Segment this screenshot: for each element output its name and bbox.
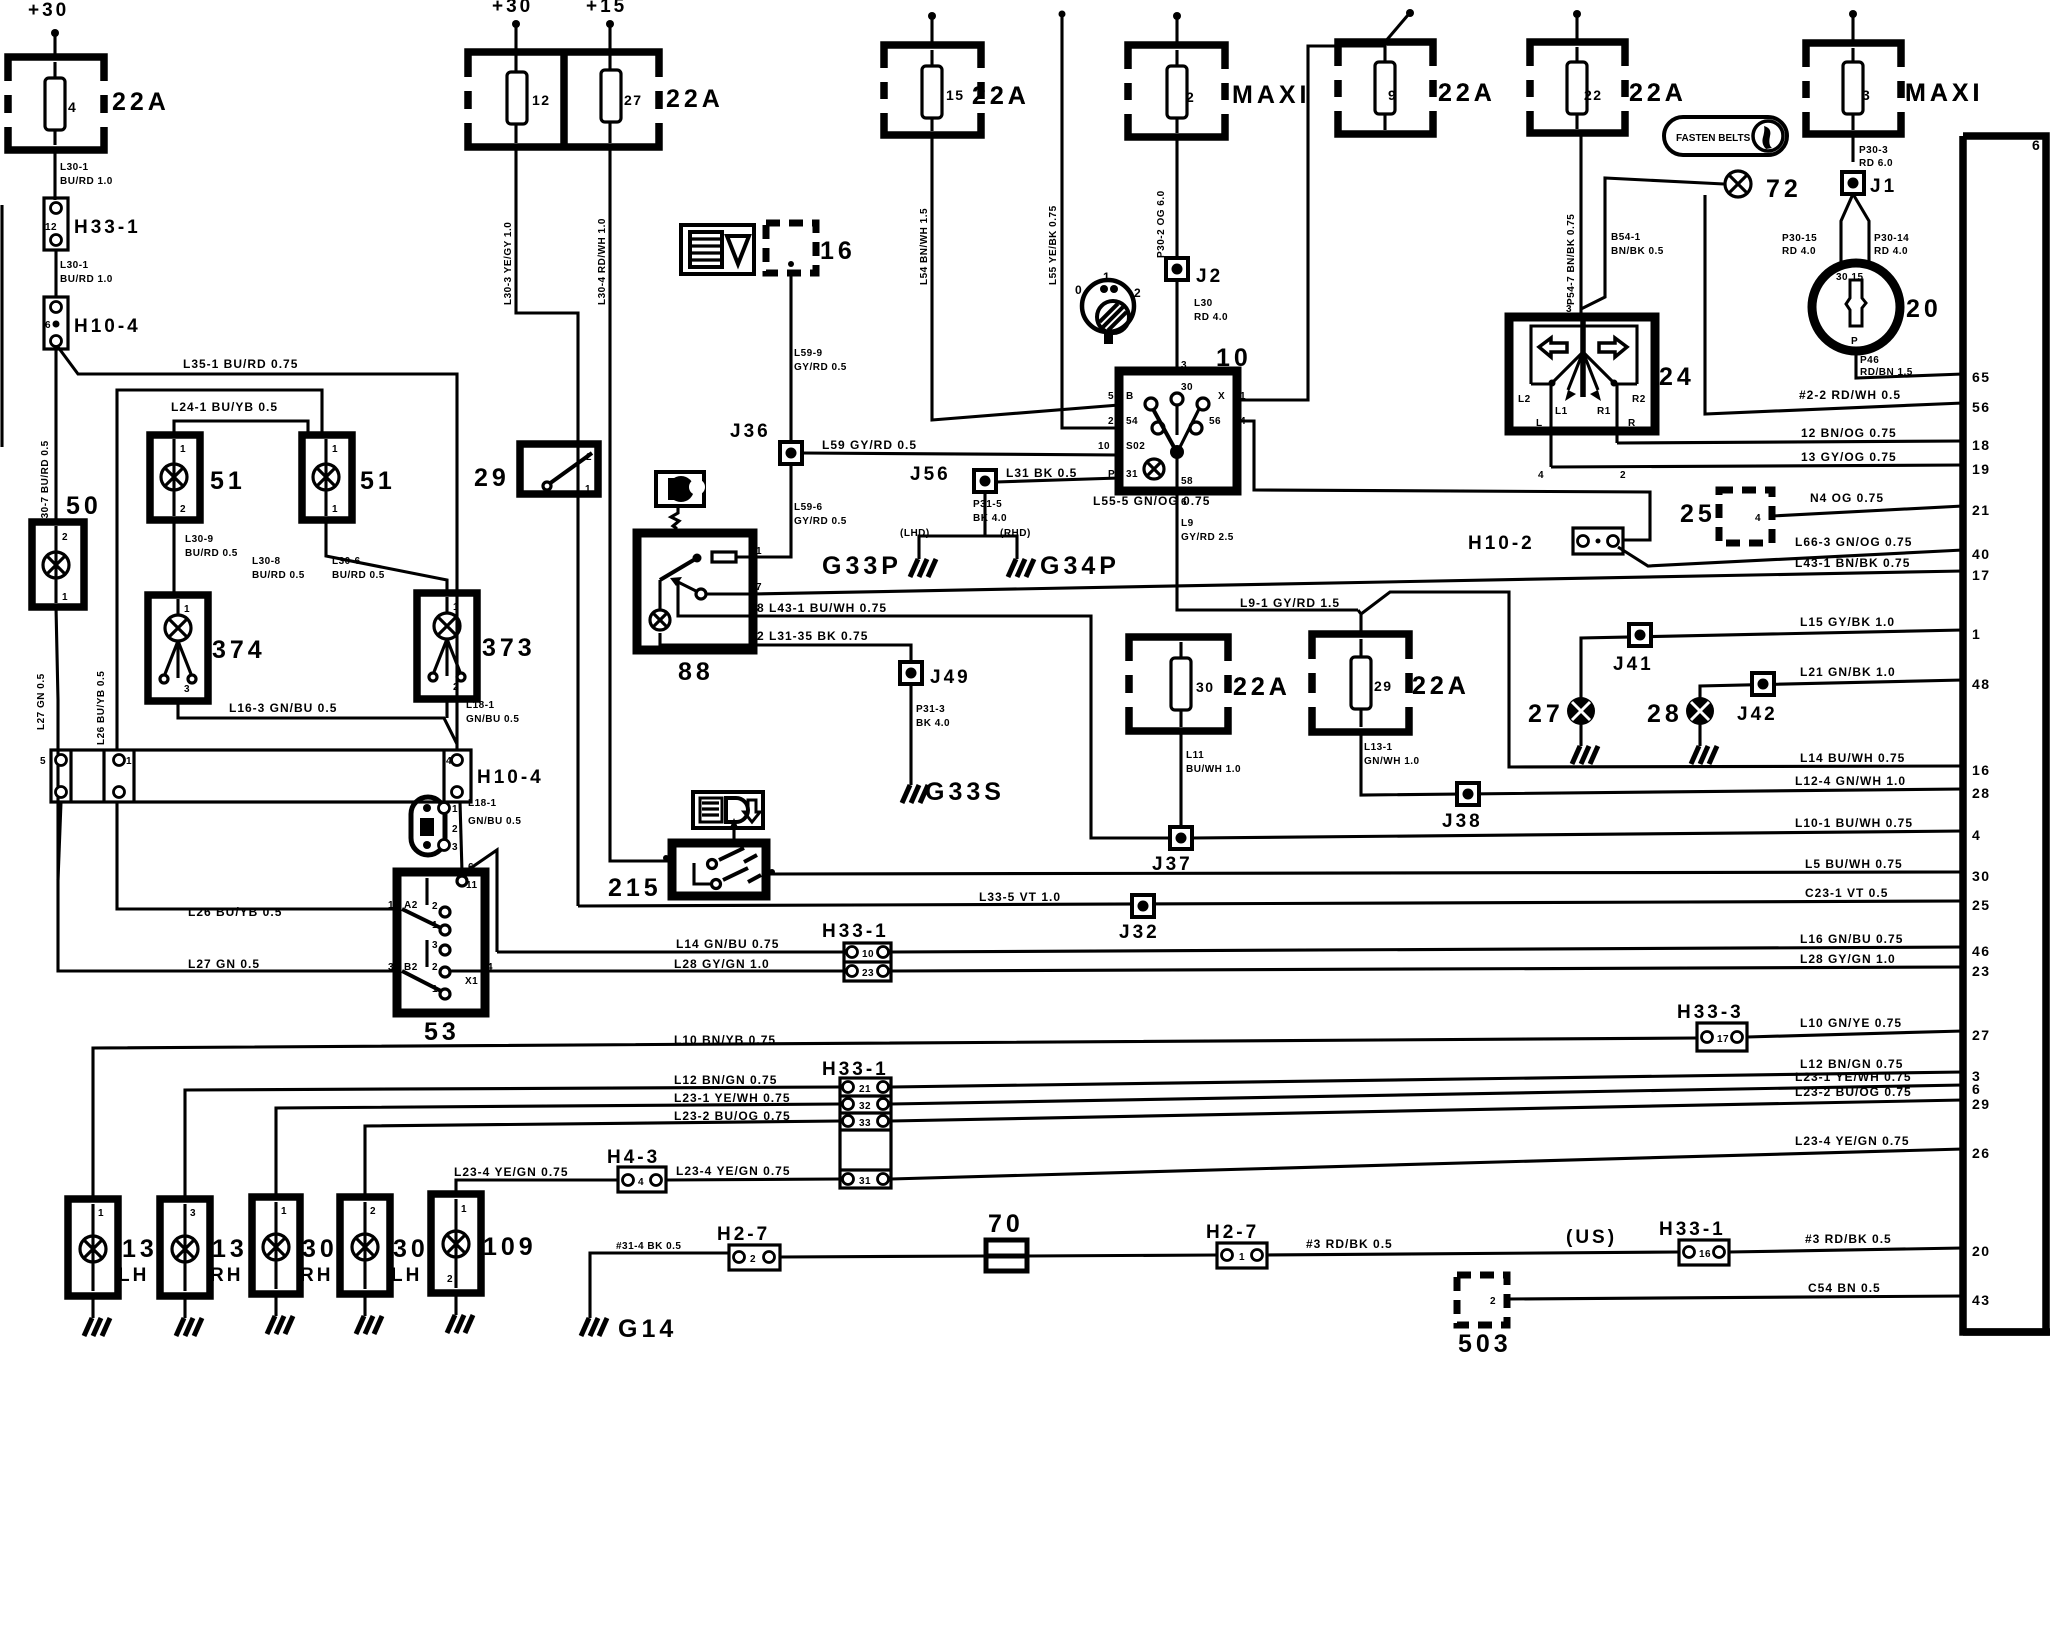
svg-text:P54-7 BN/BK 0.75: P54-7 BN/BK 0.75 <box>1566 214 1577 305</box>
svg-text:L9-1 GY/RD 1.5: L9-1 GY/RD 1.5 <box>1240 596 1340 610</box>
svg-text:H33-1: H33-1 <box>1659 1219 1726 1240</box>
supply dot and wire into fuse 4 <box>51 29 59 37</box>
wire L59-6 GY/RD 0.5 from J36 down to relay 88 pin 1 <box>753 464 791 557</box>
bus connector strip (right side) <box>1963 136 2046 1332</box>
svg-text:R1: R1 <box>1597 406 1611 417</box>
fuse 15 (22A) box <box>884 45 981 135</box>
svg-text:GY/RD 0.5: GY/RD 0.5 <box>794 362 847 373</box>
wire 70 to H2-7 (pin 1) <box>1027 1255 1217 1256</box>
svg-text:21: 21 <box>1972 502 1991 518</box>
connector H10-4 (left, pin 6) <box>44 297 68 349</box>
svg-text:29: 29 <box>1972 1096 1991 1112</box>
svg-text:56: 56 <box>1972 399 1991 415</box>
connector H2-7 (pin 2) <box>729 1245 780 1270</box>
fuse box border notches (fuse 30 and 29) <box>1124 661 1135 675</box>
svg-text:11: 11 <box>466 880 478 891</box>
svg-text:H4-3: H4-3 <box>607 1147 660 1168</box>
switch 24 inner frame <box>1531 326 1637 384</box>
dual fuse box: fuse 12 and fuse 27 (22A) <box>468 52 659 147</box>
svg-text:J36: J36 <box>730 421 771 442</box>
svg-text:15: 15 <box>946 87 965 103</box>
wire L30-8 / L30-6 BU/RD 0.5 from lamp 51 RH down diagonal to lamp 373 <box>326 520 447 593</box>
svg-text:109: 109 <box>483 1233 537 1261</box>
connector J37 <box>1170 827 1192 849</box>
svg-text:L11: L11 <box>1186 750 1204 761</box>
svg-text:1: 1 <box>585 484 591 495</box>
svg-text:BU/RD 1.0: BU/RD 1.0 <box>60 176 113 187</box>
wire H33-1 to H10-4, label L30-1 BU/RD 1.0 <box>54 250 57 298</box>
svg-text:1: 1 <box>332 504 338 515</box>
svg-text:1: 1 <box>180 444 186 455</box>
svg-text:30: 30 <box>302 1235 338 1263</box>
svg-text:A2: A2 <box>404 900 418 911</box>
svg-text:27: 27 <box>624 92 643 108</box>
svg-text:30: 30 <box>1196 679 1215 695</box>
svg-text:1: 1 <box>453 602 459 613</box>
svg-text:MAXI: MAXI <box>1905 79 1984 107</box>
svg-text:BU/WH 1.0: BU/WH 1.0 <box>1186 764 1241 775</box>
lamp 51 RH box <box>302 435 352 520</box>
svg-text:6: 6 <box>45 320 51 331</box>
svg-text:L28 GY/GN 1.0: L28 GY/GN 1.0 <box>1800 952 1896 966</box>
svg-text:22A: 22A <box>666 85 724 113</box>
svg-text:#31-4 BK 0.5: #31-4 BK 0.5 <box>616 1241 681 1252</box>
svg-text:L55 YE/BK 0.75: L55 YE/BK 0.75 <box>1048 205 1059 285</box>
svg-text:4: 4 <box>1755 513 1761 524</box>
svg-text:29: 29 <box>1374 678 1393 694</box>
fuse 22 (22A) box <box>1530 42 1625 133</box>
svg-text:H33-1: H33-1 <box>822 1059 889 1080</box>
svg-text:L55-5 GN/OG 0.75: L55-5 GN/OG 0.75 <box>1093 494 1210 508</box>
svg-text:L59 GY/RD 0.5: L59 GY/RD 0.5 <box>822 438 917 452</box>
svg-text:S02: S02 <box>1126 441 1145 452</box>
svg-text:J49: J49 <box>930 667 971 688</box>
svg-text:50: 50 <box>66 492 102 520</box>
svg-text:3: 3 <box>452 842 458 853</box>
wire L30 RD 4.0 from J2 down to switch 10 pin 30 <box>1175 280 1178 374</box>
svg-text:10: 10 <box>862 949 874 960</box>
icon box (headlamp) above relay 88 <box>656 472 704 506</box>
wire fuse4 to H33-1, label L30-1 BU/RD 1.0 <box>53 150 56 200</box>
svg-text:P: P <box>1108 469 1115 480</box>
svg-text:R2: R2 <box>1632 394 1646 405</box>
wire from long block pin1 down to switch 53 pin A2 wire (L26 BU/YB 0.5) <box>117 802 397 909</box>
dashed box 16 <box>766 223 816 273</box>
svg-text:1: 1 <box>1239 1252 1245 1263</box>
svg-text:2: 2 <box>1108 416 1114 427</box>
switch 53 lever contacts <box>402 909 441 928</box>
svg-text:(US): (US) <box>1566 1227 1617 1248</box>
svg-text:P30-14: P30-14 <box>1874 233 1909 244</box>
wire 8 L43-1 BU/WH 0.75 from relay 88 pin 8 to J37 <box>753 616 1172 838</box>
svg-text:RH: RH <box>300 1265 333 1286</box>
switch 10 box <box>1119 371 1237 491</box>
svg-text:GY/RD 0.5: GY/RD 0.5 <box>794 516 847 527</box>
svg-text:BU/RD 0.5: BU/RD 0.5 <box>252 570 305 581</box>
svg-text:1: 1 <box>452 804 458 815</box>
svg-text:L23-2 BU/OG 0.75: L23-2 BU/OG 0.75 <box>674 1109 791 1123</box>
svg-text:BU/RD 1.0: BU/RD 1.0 <box>60 274 113 285</box>
svg-text:9: 9 <box>1388 87 1397 103</box>
wire row L16 GN/BU 0.75 from H33-1 to bus pin 46 <box>891 947 1963 952</box>
supply dot above fuse 22 <box>1573 10 1581 18</box>
switch 29 (on L30-3 wire) <box>520 444 598 494</box>
svg-text:L14 BU/WH 0.75: L14 BU/WH 0.75 <box>1800 751 1905 765</box>
svg-text:3: 3 <box>1862 87 1871 103</box>
svg-text:L16-3 GN/BU 0.5: L16-3 GN/BU 0.5 <box>229 701 337 715</box>
svg-text:L30: L30 <box>1194 298 1213 309</box>
wire L31 BK 0.5 from J56 right to switch 10 pin 31 <box>996 478 1119 482</box>
svg-text:31: 31 <box>1126 469 1138 480</box>
dashed box 503 with wire C54 BN 0.5 to bus pin 43 <box>1457 1275 1507 1325</box>
svg-text:P31-5: P31-5 <box>973 499 1002 510</box>
ignition switch 20 <box>1812 263 1900 351</box>
svg-text:2: 2 <box>1490 1296 1496 1307</box>
svg-text:13: 13 <box>122 1235 158 1263</box>
svg-text:22A: 22A <box>1233 673 1291 701</box>
svg-text:4: 4 <box>446 756 452 767</box>
svg-text:GN/WH 1.0: GN/WH 1.0 <box>1364 756 1420 767</box>
svg-text:GY/RD 2.5: GY/RD 2.5 <box>1181 532 1234 543</box>
svg-text:1: 1 <box>1240 391 1246 402</box>
svg-text:L30-3 YE/GY 1.0: L30-3 YE/GY 1.0 <box>503 222 514 305</box>
connector J2 <box>1166 258 1188 280</box>
wire L59 GY/RD 0.5 from J36 right to switch 10 pin S02 <box>802 453 1119 455</box>
svg-text:H33-3: H33-3 <box>1677 1002 1744 1023</box>
svg-text:RH: RH <box>210 1265 243 1286</box>
connector J1 <box>1842 172 1864 194</box>
wire from long block left pin down (joins L27 run) <box>58 802 61 880</box>
wire row L28 GY/GN 1.0 from switch 53 pin 4 to H33-1 pin 23 <box>450 969 846 972</box>
svg-text:2: 2 <box>432 901 438 912</box>
svg-text:L23-4 YE/GN 0.75: L23-4 YE/GN 0.75 <box>454 1165 569 1179</box>
svg-text:10: 10 <box>1098 441 1110 452</box>
wire row L12 BN/GN 0.75 from lamp 13RH up through H33-1 pin 21 to bus pin 3 <box>185 1087 840 1197</box>
svg-text:32: 32 <box>859 1101 871 1112</box>
svg-text:H10-4: H10-4 <box>74 316 141 337</box>
svg-text:L18-1: L18-1 <box>468 798 497 809</box>
connector J41 <box>1629 624 1651 646</box>
svg-text:2: 2 <box>370 1206 376 1217</box>
svg-text:2: 2 <box>453 682 459 693</box>
svg-text:2: 2 <box>1620 470 1626 481</box>
wire L33-5 VT 1.0 row from x578 corner through J32 to bus pin 25 <box>578 901 1963 906</box>
svg-text:+30: +30 <box>28 0 69 21</box>
svg-text:70: 70 <box>988 1210 1024 1238</box>
svg-text:72: 72 <box>1766 175 1802 203</box>
svg-text:GN/BU 0.5: GN/BU 0.5 <box>468 816 521 827</box>
svg-text:20: 20 <box>1972 1243 1991 1259</box>
svg-text:L30-1: L30-1 <box>60 162 89 173</box>
svg-text:40: 40 <box>1972 546 1991 562</box>
icon box (interior light) with hatch and V symbol <box>681 225 754 274</box>
svg-text:H2-7: H2-7 <box>717 1224 770 1245</box>
svg-text:2 L31-35 BK 0.75: 2 L31-35 BK 0.75 <box>757 629 868 643</box>
svg-text:B54-1: B54-1 <box>1611 232 1641 243</box>
svg-text:2: 2 <box>586 452 592 463</box>
svg-text:22A: 22A <box>972 82 1030 110</box>
svg-text:L30-8: L30-8 <box>252 556 281 567</box>
wire H2-7 to box 70 <box>780 1256 986 1257</box>
svg-text:8 L43-1 BU/WH 0.75: 8 L43-1 BU/WH 0.75 <box>757 601 887 615</box>
wire L18-1 GN/BU 0.5 from long block pin 4 down to switch 53 pin 6 <box>460 802 462 872</box>
wire P30-3 RD 6.0 from fuse 3 down to J1 <box>1851 134 1854 162</box>
svg-text:19: 19 <box>1972 461 1991 477</box>
svg-text:RD 4.0: RD 4.0 <box>1874 246 1908 257</box>
switch 215 interior contacts <box>694 863 712 884</box>
svg-text:L10 GN/YE 0.75: L10 GN/YE 0.75 <box>1800 1016 1902 1030</box>
switch 24 box (turn signal) <box>1509 317 1655 431</box>
svg-text:3: 3 <box>388 962 394 973</box>
svg-text:51: 51 <box>360 467 396 495</box>
switch 10 interior contacts and rotor <box>1145 398 1157 410</box>
svg-text:L18-1: L18-1 <box>466 700 495 711</box>
wire 2 L31-35 BK 0.75 from relay 88 pin 2 to J49 and ground G33S <box>753 645 911 779</box>
svg-text:2: 2 <box>180 504 186 515</box>
svg-text:3: 3 <box>190 1208 196 1219</box>
svg-text:G33S: G33S <box>925 778 1005 806</box>
svg-text:1: 1 <box>332 444 338 455</box>
svg-text:X1: X1 <box>465 976 478 987</box>
svg-text:22: 22 <box>1584 87 1603 103</box>
svg-text:2: 2 <box>750 1254 756 1265</box>
svg-text:L35-1 BU/RD 0.75: L35-1 BU/RD 0.75 <box>183 357 298 371</box>
fuse 3 (MAXI) box <box>1806 43 1901 134</box>
lamp box 13 RH <box>160 1199 210 1296</box>
svg-text:46: 46 <box>1972 943 1991 959</box>
svg-text:#2-2 RD/WH 0.5: #2-2 RD/WH 0.5 <box>1799 388 1901 402</box>
switch 24 pin verticals <box>1549 384 1552 467</box>
svg-text:H10-4: H10-4 <box>477 767 544 788</box>
svg-text:FASTEN BELTS: FASTEN BELTS <box>1676 133 1751 144</box>
svg-text:L28 GY/GN 1.0: L28 GY/GN 1.0 <box>674 957 770 971</box>
svg-text:1: 1 <box>388 900 394 911</box>
svg-text:12 BN/OG 0.75: 12 BN/OG 0.75 <box>1801 426 1897 440</box>
svg-text:54: 54 <box>1126 416 1138 427</box>
wire lamp 50 down to corner y971 (L27 GN 0.5 rotated) then right to switch 53 pin B2 <box>56 607 397 971</box>
connector H2-7 right (pin 1) <box>1217 1243 1267 1268</box>
svg-text:N4 OG 0.75: N4 OG 0.75 <box>1810 491 1884 505</box>
wire L30-3 YE/GY 1.0 from fuse 12 down (rotated label) then jog to x578 down to y906 <box>516 147 578 906</box>
svg-text:27: 27 <box>1972 1027 1991 1043</box>
switch 24 interior: arrows and contact fan <box>1539 338 1567 357</box>
svg-text:J41: J41 <box>1613 654 1654 675</box>
svg-text:53: 53 <box>424 1018 460 1046</box>
wire split P30-15 / P30-14 RD 4.0 from J1 down to ignition switch 20 <box>1841 194 1853 262</box>
wire to bus pin 20 <box>1729 1248 1963 1252</box>
svg-text:BK 4.0: BK 4.0 <box>916 718 950 729</box>
connector H10-2 <box>1573 528 1623 554</box>
lamp box 13 LH <box>68 1199 118 1296</box>
svg-text:L23-4 YE/GN 0.75: L23-4 YE/GN 0.75 <box>676 1164 791 1178</box>
wire L5 BU/WH 0.75 from switch 215 pin 6 to bus pin 30 <box>766 872 1963 874</box>
svg-text:4: 4 <box>638 1177 644 1188</box>
lamp 373 box with fork symbol <box>417 593 477 699</box>
svg-text:L13-1: L13-1 <box>1364 742 1393 753</box>
connector J36 <box>780 442 802 464</box>
lamp 51 LH box <box>150 435 200 520</box>
fuse 9 (22A) box <box>1338 42 1433 134</box>
relay 88 box <box>637 533 753 650</box>
connector H33-1 block (pins 21 / 32 / 33 / 31) <box>840 1078 891 1188</box>
svg-text:6: 6 <box>1972 1081 1981 1097</box>
svg-text:1: 1 <box>1972 626 1981 642</box>
svg-text:4: 4 <box>1972 827 1981 843</box>
connector H33-1 block (pins 10 / 23) <box>844 943 891 981</box>
svg-text:L66-3 GN/OG 0.75: L66-3 GN/OG 0.75 <box>1795 535 1912 549</box>
svg-text:18: 18 <box>1972 437 1991 453</box>
svg-text:G34P: G34P <box>1040 552 1120 580</box>
switch 53 interior contacts column <box>425 878 428 905</box>
svg-text:30: 30 <box>393 1235 429 1263</box>
svg-text:0: 0 <box>1075 283 1082 297</box>
svg-text:L33-5 VT 1.0: L33-5 VT 1.0 <box>979 890 1061 904</box>
ground G33P <box>910 553 936 577</box>
svg-text:L43-1 BN/BK 0.75: L43-1 BN/BK 0.75 <box>1795 556 1910 570</box>
wire L54 BN/WH 1.5 from fuse 15 down then right into switch 10 pin B <box>932 135 1119 420</box>
svg-text:1: 1 <box>461 1204 467 1215</box>
svg-text:L10 BN/YB 0.75: L10 BN/YB 0.75 <box>674 1033 776 1047</box>
wire #2-2 RD/WH 0.5 from lamp 72 down and right to bus pin 56 <box>1705 195 1963 414</box>
svg-text:+15: +15 <box>586 0 627 17</box>
connector oval ID (diagnostic, pins 1 2 3) <box>411 797 458 855</box>
switch 53 interior: top pin 6 <box>457 876 467 886</box>
svg-text:1: 1 <box>98 1208 104 1219</box>
svg-text:R: R <box>1628 418 1636 429</box>
svg-text:31: 31 <box>859 1176 871 1187</box>
switch 215 pins <box>663 855 669 861</box>
svg-text:H33-1: H33-1 <box>74 217 141 238</box>
svg-text:21: 21 <box>859 1084 871 1095</box>
svg-text:J38: J38 <box>1442 811 1483 832</box>
svg-text:J2: J2 <box>1196 266 1223 287</box>
wire branch into fuse 29 and continuation to row L14 BU/WH to bus pin 16 <box>1358 610 1361 634</box>
svg-text:L54 BN/WH 1.5: L54 BN/WH 1.5 <box>919 208 930 285</box>
wire 13 GY/OG 0.75 from switch 24 pin 4 to bus pin 19 <box>1551 465 1963 467</box>
svg-text:L2: L2 <box>1518 394 1531 405</box>
connector H33-3 (pin 17) <box>1697 1023 1747 1051</box>
svg-text:B: B <box>1126 391 1134 402</box>
ground G34P <box>1008 553 1034 577</box>
svg-text:X: X <box>1218 391 1225 402</box>
svg-text:88: 88 <box>678 658 714 686</box>
wire L30-9 BU/RD 0.5 from lamp 51 LH down to lamp 374 <box>172 520 175 595</box>
lamp box 30 LH <box>340 1197 390 1294</box>
svg-text:L59-9: L59-9 <box>794 348 823 359</box>
svg-text:C23-1 VT 0.5: C23-1 VT 0.5 <box>1805 886 1888 900</box>
svg-text:P31-3: P31-3 <box>916 704 945 715</box>
svg-text:12: 12 <box>45 222 57 233</box>
wire row L15 GY/BK 1.0 from lamp 27 through J41 to bus pin 1 <box>1581 630 1963 698</box>
wire row L43-1 BN/BK 0.75 from relay 88 pin 7 to bus pin 17 <box>753 571 1963 594</box>
svg-text:J42: J42 <box>1737 704 1778 725</box>
svg-text:L21 GN/BK 1.0: L21 GN/BK 1.0 <box>1800 665 1896 679</box>
svg-text:1: 1 <box>281 1206 287 1217</box>
lamp box 30 RH <box>252 1197 300 1294</box>
fuse 30 (22A) box <box>1129 637 1228 731</box>
lamp 50 box <box>32 522 84 607</box>
svg-text:L30-1: L30-1 <box>60 260 89 271</box>
svg-text:1: 1 <box>756 546 762 557</box>
svg-text:BU/RD 0.5: BU/RD 0.5 <box>332 570 385 581</box>
fuse 2 (MAXI) box <box>1128 45 1225 137</box>
icon box (headlamp dip) above switch 215 <box>693 792 763 828</box>
switch 215 box <box>672 843 766 896</box>
connector H33-1 (pin 12) <box>44 198 68 250</box>
supply dot above fuse 9 with corner feed to X1 rail <box>1406 9 1414 17</box>
connector J32 <box>1132 895 1154 917</box>
svg-text:2: 2 <box>452 824 458 835</box>
wire P30-2 OG 6.0 from fuse 2 down to J2 (rotated label) <box>1175 137 1178 258</box>
svg-text:23: 23 <box>1972 963 1991 979</box>
svg-text:25: 25 <box>1972 897 1991 913</box>
supply dot above fuse 2 <box>1173 12 1181 20</box>
wire 12 BN/OG 0.75 from switch 24 pin 2 to bus pin 18 <box>1617 441 1963 443</box>
svg-text:L23-1 YE/WH 0.75: L23-1 YE/WH 0.75 <box>674 1091 791 1105</box>
svg-text:BK 4.0: BK 4.0 <box>973 513 1007 524</box>
svg-text:3: 3 <box>432 940 438 951</box>
wire from switch 53 top pin diagonal to vertical x497 down to row L16 GN/BU <box>465 850 497 952</box>
svg-text:L10-1 BU/WH 0.75: L10-1 BU/WH 0.75 <box>1795 816 1913 830</box>
fuse 4 (22A) box <box>8 57 104 150</box>
wire L30-4 RD/WH 1.0 from fuse 27 down to switch 215 (rotated label) <box>610 147 672 861</box>
svg-text:2: 2 <box>1134 286 1141 300</box>
svg-text:L16 GN/BU 0.75: L16 GN/BU 0.75 <box>1800 932 1903 946</box>
connector H4-3 (pin 4) <box>618 1167 666 1192</box>
svg-text:L15 GY/BK 1.0: L15 GY/BK 1.0 <box>1800 615 1895 629</box>
svg-text:LH: LH <box>118 1265 149 1286</box>
wire row L23-1 YE/WH 0.75 from lamp 30RH up through H33-1 pin 32 to bus pin 6 <box>276 1104 840 1197</box>
wire row L23-2 BU/OG 0.75 from lamp 30LH up through H33-1 pin 33 to bus pin 29 <box>365 1121 840 1197</box>
svg-text:28: 28 <box>1972 785 1991 801</box>
svg-text:16: 16 <box>1699 1249 1711 1260</box>
svg-text:22A: 22A <box>1412 672 1470 700</box>
svg-text:L30-9: L30-9 <box>185 534 214 545</box>
svg-text:H33-1: H33-1 <box>822 921 889 942</box>
svg-text:5: 5 <box>40 756 46 767</box>
svg-text:56: 56 <box>1209 416 1221 427</box>
svg-text:L12 BN/GN 0.75: L12 BN/GN 0.75 <box>674 1073 777 1087</box>
svg-text:#3 RD/BK 0.5: #3 RD/BK 0.5 <box>1306 1237 1393 1251</box>
svg-text:1: 1 <box>1103 270 1110 284</box>
svg-text:L9: L9 <box>1181 518 1194 529</box>
svg-text:L30-4 RD/WH 1.0: L30-4 RD/WH 1.0 <box>597 218 608 305</box>
svg-text:(LHD): (LHD) <box>900 528 930 539</box>
svg-text:2: 2 <box>447 1274 453 1285</box>
svg-text:3: 3 <box>184 684 190 695</box>
svg-text:+30: +30 <box>492 0 533 17</box>
connector J49 <box>900 662 922 684</box>
wire loop from H10-4 long block pin up to y390 right to lamp 51 RH <box>117 390 322 750</box>
wire row L10 BN/YB 0.75 from lamp 13LH up through H33-3 to bus pin 27 <box>93 1038 1697 1197</box>
arrow from switch 215 up to icon <box>729 818 739 830</box>
svg-text:4: 4 <box>68 99 77 115</box>
svg-text:2: 2 <box>1186 89 1195 105</box>
svg-text:RD 6.0: RD 6.0 <box>1859 158 1893 169</box>
svg-text:L26 BU/YB 0.5: L26 BU/YB 0.5 <box>188 905 282 919</box>
wire L9 GY/RD 2.5 from switch 10 down then right (L9-1 GY/RD 1.5) <box>1177 495 1358 610</box>
svg-text:17: 17 <box>1972 567 1991 583</box>
svg-text:BN/BK 0.5: BN/BK 0.5 <box>1611 246 1664 257</box>
svg-text:GN/BU 0.5: GN/BU 0.5 <box>466 714 519 725</box>
svg-text:L26 BU/YB 0.5: L26 BU/YB 0.5 <box>96 671 107 745</box>
switch 53 box <box>397 872 485 1013</box>
svg-text:MAXI: MAXI <box>1232 81 1311 109</box>
svg-text:27: 27 <box>1528 700 1564 728</box>
svg-text:3: 3 <box>1566 304 1572 315</box>
svg-text:#3 RD/BK 0.5: #3 RD/BK 0.5 <box>1805 1232 1892 1246</box>
lamp 28 with ground <box>1686 697 1714 725</box>
